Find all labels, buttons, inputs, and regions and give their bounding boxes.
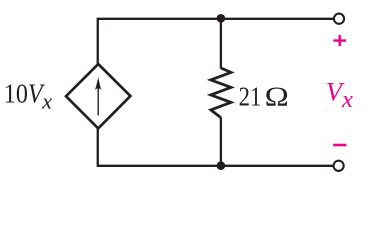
terminal bottom right xyxy=(334,161,344,171)
svg-text:10V: 10V xyxy=(4,79,46,109)
wire top horizontal xyxy=(98,18,333,20)
arrow shaft inside source xyxy=(97,80,99,116)
wire left vertical (bottom segment) xyxy=(97,128,99,167)
svg-text:21: 21 xyxy=(239,82,262,112)
arrow head inside source xyxy=(95,77,101,90)
svg-text:x: x xyxy=(341,86,353,113)
wire bottom horizontal xyxy=(98,165,333,167)
wire left vertical (top segment) xyxy=(97,18,99,65)
minus sign xyxy=(333,144,346,147)
wire middle vertical (bottom segment) xyxy=(220,118,222,166)
dependent current source diamond xyxy=(66,64,130,128)
svg-text:Ω: Ω xyxy=(265,82,289,112)
junction node bottom xyxy=(217,161,226,170)
junction node top xyxy=(217,14,226,23)
plus sign xyxy=(333,35,346,46)
svg-text:x: x xyxy=(41,88,52,113)
wire middle vertical (top segment) xyxy=(220,19,222,69)
terminal top right xyxy=(334,14,344,24)
resistor R zigzag xyxy=(211,68,231,118)
